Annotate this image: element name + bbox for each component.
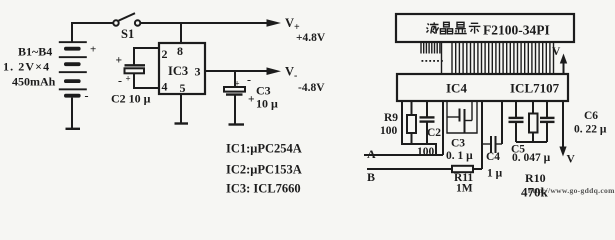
segment bus lines LCD to IC4 xyxy=(442,42,554,74)
svg-text:-4.8V: -4.8V xyxy=(298,82,325,94)
svg-text:ICL7107: ICL7107 xyxy=(510,81,560,96)
svg-text:R10: R10 xyxy=(525,171,546,185)
svg-text:V: V xyxy=(567,154,576,166)
svg-text:-: - xyxy=(118,74,122,88)
battery bottom wire + terminal bar xyxy=(66,98,81,129)
svg-text:C6: C6 xyxy=(584,110,598,122)
IC4 ICL7107 box xyxy=(397,74,568,101)
wire switch to V+ arrow xyxy=(140,22,268,24)
capacitor C5 xyxy=(509,101,551,164)
svg-text:C2: C2 xyxy=(427,127,441,139)
battery labels xyxy=(3,45,56,89)
svg-text:http://www.go-gddq.com: http://www.go-gddq.com xyxy=(528,186,615,195)
svg-text:B1~B4: B1~B4 xyxy=(18,45,52,59)
svg-text:C4: C4 xyxy=(486,151,500,163)
svg-text:+4.8V: +4.8V xyxy=(296,32,326,44)
svg-text:S1: S1 xyxy=(121,27,134,41)
svg-text:V: V xyxy=(552,46,561,58)
svg-text:1 μ: 1 μ xyxy=(487,168,503,180)
svg-text:V: V xyxy=(285,65,294,79)
IC4 IN+ pin to node A xyxy=(442,101,444,155)
resistor R10 xyxy=(521,101,549,200)
svg-text:0. 22 μ: 0. 22 μ xyxy=(574,124,607,136)
svg-text:C2 10 μ: C2 10 μ xyxy=(111,92,151,106)
dotted continuation marks xyxy=(422,60,443,62)
LCD stub pins (unused segment pins) xyxy=(421,42,440,54)
V+ arrow xyxy=(267,16,326,44)
IC3 ICL7660 xyxy=(159,43,205,95)
svg-text:4: 4 xyxy=(162,80,168,94)
V- down arrow xyxy=(559,101,575,166)
svg-text:-: - xyxy=(294,71,297,82)
LCD display module box xyxy=(396,14,574,42)
battery B1~B4 xyxy=(59,41,96,102)
svg-text:-: - xyxy=(85,89,89,103)
svg-text:2: 2 xyxy=(162,47,168,61)
LCD chinese label (liquid crystal display) drawn strokes xyxy=(427,22,481,34)
IC list labels xyxy=(226,142,302,196)
svg-text:V: V xyxy=(285,16,294,30)
svg-text:+: + xyxy=(116,55,123,67)
svg-text:8: 8 xyxy=(177,44,183,58)
svg-text:IC3: IC3 xyxy=(168,64,188,78)
svg-text:0. 047 μ: 0. 047 μ xyxy=(512,152,551,164)
svg-text:+: + xyxy=(126,74,131,84)
IC4 COM pin wire xyxy=(402,101,436,155)
svg-text:0. 1 μ: 0. 1 μ xyxy=(446,150,473,162)
switch S1 xyxy=(113,13,140,41)
wire battery top to switch xyxy=(72,23,113,42)
svg-text:IC1:μPC254A: IC1:μPC254A xyxy=(226,142,302,156)
capacitor C4 + pin to B xyxy=(482,101,503,180)
capacitor C3 xyxy=(224,71,278,125)
svg-text:F2100-34PI: F2100-34PI xyxy=(483,23,550,38)
capacitor C6 xyxy=(540,101,607,142)
svg-text:100: 100 xyxy=(417,146,435,158)
resistor R9 xyxy=(380,101,416,144)
svg-text:IC2:μPC153A: IC2:μPC153A xyxy=(226,163,302,177)
svg-text:+: + xyxy=(90,44,96,56)
svg-text:IC4: IC4 xyxy=(446,81,467,96)
svg-text:B: B xyxy=(367,170,375,184)
wire junction to IC3 pin 8 xyxy=(180,23,182,43)
svg-text:A: A xyxy=(367,147,376,161)
V supply up arrow xyxy=(552,46,567,74)
svg-text:IC3: ICL7660: IC3: ICL7660 xyxy=(226,182,301,196)
svg-text:1M: 1M xyxy=(456,183,473,195)
svg-text:3: 3 xyxy=(195,65,201,79)
node A line xyxy=(364,147,443,161)
wire IC3 pin3 to V- arrow xyxy=(205,70,267,72)
svg-text:100: 100 xyxy=(380,125,398,137)
svg-text:C3: C3 xyxy=(256,84,271,98)
svg-text:-: - xyxy=(247,73,251,87)
svg-text:R9: R9 xyxy=(384,112,398,124)
node B line + resistor R11 xyxy=(367,166,482,195)
IC3 pin5 ground stub xyxy=(175,94,189,124)
capacitor C2 (display section) xyxy=(417,101,441,158)
bottom wire of C5/R10/C6 xyxy=(516,141,547,143)
svg-text:+: + xyxy=(248,94,255,106)
svg-text:C3: C3 xyxy=(451,138,465,150)
svg-text:1. 2V×4: 1. 2V×4 xyxy=(3,60,50,74)
V- arrow xyxy=(267,65,326,95)
svg-text:5: 5 xyxy=(180,81,186,95)
svg-text:10 μ: 10 μ xyxy=(256,97,278,111)
svg-text:450mAh: 450mAh xyxy=(12,75,56,89)
capacitor C2 xyxy=(111,48,159,106)
capacitor C3 (reference) xyxy=(446,101,477,162)
